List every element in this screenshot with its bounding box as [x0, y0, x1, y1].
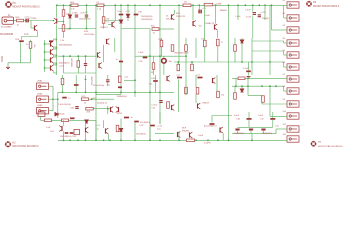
junction [159, 55, 161, 57]
wire bend to JP5 [283, 51, 285, 55]
label C12b [260, 118, 265, 120]
wire y78.3 net [232, 77, 287, 79]
svg-text:24N5: 24N5 [117, 113, 123, 115]
wire Q10 emitter tie [54, 48, 57, 50]
label R21 [93, 98, 98, 100]
wire R27 down [30, 48, 32, 63]
wire into JP10 [270, 115, 287, 117]
wire bend to JP6 [283, 62, 285, 67]
wire x248 r3 [247, 78, 249, 95]
wire X2 lead [49, 98, 58, 100]
value 2N08W [182, 131, 189, 133]
resistor R20h [86, 107, 94, 110]
wire x135 r4 [134, 123, 136, 141]
junction [91, 98, 93, 100]
wire x179 rail [178, 5, 180, 62]
header pin JP11 [287, 126, 299, 132]
value 16 [166, 15, 169, 17]
label M11 [176, 13, 181, 15]
junction bottom bus [69, 139, 71, 141]
wire x252 seg [251, 38, 253, 75]
label C4 [96, 2, 100, 4]
junction top bus [56, 4, 58, 6]
value 1k R25 [17, 24, 20, 26]
wire x70 seg2 [69, 18, 71, 28]
wire x128 stub2 [127, 18, 129, 21]
wire Q13 collector tie [54, 62, 57, 64]
connector X4 [38, 112, 45, 116]
svg-text:BC546B: BC546B [91, 76, 93, 85]
junction y62 [177, 61, 179, 63]
svg-text:240(40).2k: 240(40).2k [97, 102, 108, 104]
wire x217 r3 [216, 75, 218, 91]
label C36 [138, 12, 143, 14]
resistor R34 [238, 77, 245, 80]
transistor Q25 [178, 132, 181, 138]
wire y28.5 [58, 28, 96, 30]
wire x204.4 seg [203, 5, 205, 40]
value C+3 [24, 34, 29, 36]
svg-text:1,000.2k(2G): 1,000.2k(2G) [58, 104, 71, 106]
wire Q11 collector tie [54, 46, 57, 48]
wire y133.6 seg [155, 133, 174, 135]
junction [134, 79, 136, 81]
resistor R39 [116, 125, 119, 132]
junction [44, 51, 46, 53]
wire y20.5 mid [104, 20, 121, 22]
value 1.0uF [243, 68, 249, 70]
label JP10 [283, 111, 287, 113]
wire x248.5 gnd [248, 72, 250, 75]
wire y28.5 seg2 [121, 28, 150, 30]
capacitor C28b [70, 132, 74, 134]
wire Q10 emitter [53, 47, 55, 49]
svg-text:1N4148(D0)R30: 1N4148(D0)R30 [174, 52, 189, 54]
wire x85.5 r4 [85, 123, 87, 127]
capacitor C9b [198, 77, 203, 79]
svg-text:1N4AC1: 1N4AC1 [220, 9, 229, 12]
wire x86.5 seg [86, 5, 88, 14]
svg-text:MOUNT-PAD-ROUND3.6: MOUNT-PAD-ROUND3.6 [313, 5, 340, 8]
wire x63.5 r4 [63, 120, 65, 126]
junction bottom bus [77, 139, 79, 141]
resistor R17 [160, 40, 163, 47]
junction top bus [271, 4, 273, 6]
wire x160 rail [159, 5, 161, 124]
label +C2 [176, 74, 181, 76]
wire x199.3 seg [198, 5, 200, 9]
wire x78.3 r2b [77, 67, 79, 73]
label +C9 [196, 74, 201, 76]
wire X3 lead [49, 110, 54, 112]
value 1N4148(D0)R30 [174, 52, 189, 54]
wire base Q12 [45, 59, 51, 61]
value 1N4(B4D0) [234, 133, 244, 135]
svg-text:1N48(D0)L: 1N48(D0)L [117, 96, 128, 98]
junction bottom bus [159, 139, 161, 141]
resistor R24v [191, 64, 194, 71]
resistor R27 [29, 42, 32, 49]
junction y56.2 [85, 55, 87, 57]
transistor Q15 [111, 107, 114, 113]
wire x108.7 r4 [108, 134, 110, 140]
junction top bus [237, 4, 239, 6]
wire x128 stub [127, 5, 129, 14]
value BC546B vert [70, 59, 72, 68]
label +C13 [157, 125, 163, 127]
svg-text:(D0)4u: (D0)4u [59, 113, 65, 115]
wire Q12 collector [53, 55, 55, 57]
wire drop to C06 [21, 37, 23, 40]
label +C1B [260, 12, 266, 14]
svg-text:1N4AC13: 1N4AC13 [205, 22, 215, 25]
wire x228.5 rail [228, 5, 230, 140]
junction [53, 20, 55, 22]
svg-text:1C28: 1C28 [246, 16, 252, 18]
wire y92.3 [58, 91, 174, 93]
wire into JP3 [272, 29, 288, 31]
wire x193 seg [192, 5, 194, 20]
junction top bus [264, 4, 266, 6]
wire x121 r4 [120, 119, 122, 129]
wire x186 r3b [185, 87, 187, 95]
svg-text:1.0Ok: 1.0Ok [151, 104, 158, 106]
wire rail x57 upper [56, 5, 58, 17]
value 1N4148(D0) [79, 18, 91, 20]
wire Q13 collector [53, 63, 55, 65]
wire x70 seg [69, 5, 71, 14]
resistor R30 [167, 102, 170, 109]
header pin JP1 [287, 2, 299, 8]
svg-text:USB3: USB3 [37, 105, 43, 107]
label X1 [37, 81, 43, 83]
junction bottom bus [63, 139, 65, 141]
junction [44, 59, 46, 61]
capacitor C37 [119, 61, 123, 63]
wire bend to JP4 [283, 41, 285, 43]
capacitor C34 [85, 15, 88, 17]
wire into JP11 [276, 128, 287, 130]
junction [57, 98, 59, 100]
wire x103.6 r4 [103, 120, 105, 128]
value PC3(M) [30, 18, 37, 20]
capacitor C26 [70, 117, 74, 119]
wire x85.5 r4b [85, 133, 87, 140]
label +C8 [124, 76, 129, 78]
value 1u [68, 98, 70, 100]
wire x107.8 a [107, 75, 109, 80]
label C30 [201, 39, 206, 41]
wire X3 riser [52, 99, 54, 111]
junction bottom bus [134, 139, 136, 141]
junction top bus [86, 4, 88, 6]
capacitor C20 [74, 84, 79, 86]
value 1.6uF [117, 11, 123, 13]
svg-text:2.2(PF): 2.2(PF) [204, 143, 211, 145]
wire Q13 emitter tie [54, 72, 57, 74]
junction y56.2 [77, 55, 79, 57]
value (D0)4u [59, 113, 65, 115]
crystal Y1 [74, 130, 80, 135]
value 1N4148(D0) [59, 62, 70, 64]
label H5 [13, 2, 17, 5]
value 2SC18 [166, 19, 173, 21]
wire x270 seg [269, 5, 271, 75]
label D1 [85, 12, 89, 14]
value 1.0k- [46, 127, 51, 129]
value 24N5 [117, 113, 123, 115]
junction bottom bus [217, 139, 219, 141]
wire x96 rail [95, 5, 97, 140]
ground [6, 67, 10, 68]
svg-text:1.6M+: 1.6M+ [72, 12, 79, 14]
value 1M [106, 18, 109, 20]
wire rail x57 lower [56, 24, 58, 75]
value 1.0u [157, 129, 161, 131]
capacitor C22 [62, 97, 66, 99]
junction [107, 108, 109, 110]
label Q12 [55, 55, 58, 57]
resistor R21v [204, 40, 207, 47]
wire x178.5 r3 [178, 80, 180, 113]
wire y108.7 [93, 108, 110, 110]
value 1.6uF [205, 15, 211, 17]
wire rail x283.7 JP1-JP2 [283, 5, 285, 18]
label D5 [184, 2, 188, 4]
label C11 [149, 84, 154, 86]
header X3 [37, 108, 49, 114]
junction y86.2 [235, 85, 237, 87]
lamp LED1 ring [162, 59, 167, 64]
capacitor C33 [75, 15, 78, 17]
junction top bus [159, 4, 161, 6]
value 2SC1000a [84, 34, 95, 36]
diode D8 [55, 113, 58, 116]
junction [185, 55, 187, 57]
label Q11 [55, 47, 58, 49]
label J1 [8, 15, 11, 17]
junction y92.3 [95, 91, 97, 93]
wire x63.5 r2 [63, 56, 65, 73]
resistor R37 [45, 119, 52, 122]
capacitor C36 [134, 14, 139, 16]
capacitor C13b [150, 125, 155, 127]
junction y62 [191, 61, 193, 63]
junction y56.2 [69, 55, 71, 57]
wire Q3 collector [114, 5, 116, 21]
wire y73 [64, 72, 97, 74]
diode D9 [119, 129, 122, 132]
svg-text:USB2: USB2 [37, 94, 43, 96]
wire x196 r3b [195, 94, 197, 103]
value MOUNT-PAD-ROUND3.6 (H2) [13, 145, 40, 148]
wire into JP8 [284, 90, 287, 92]
svg-text:1.6uF: 1.6uF [205, 15, 211, 17]
wire y29 right [159, 28, 174, 30]
wire Q11 emitter tie [54, 56, 57, 58]
header X2 [37, 96, 49, 102]
capacitor C2 [177, 77, 182, 79]
wire y86.2 long net [232, 85, 284, 87]
label R17 [159, 39, 164, 41]
wire R21v down [204, 47, 206, 62]
header pin JP12 [287, 136, 299, 142]
value 1.6uF [235, 16, 241, 18]
svg-text:1.8uF: 1.8uF [258, 115, 264, 117]
capacitor C23 [75, 107, 78, 109]
resistor R38 [62, 119, 69, 122]
svg-text:1M: 1M [106, 18, 109, 20]
label R1a [151, 26, 156, 28]
junction top bus [192, 4, 194, 6]
label R14 [84, 31, 89, 33]
junction top bus [149, 4, 151, 6]
label JP11 [283, 124, 287, 126]
wire x57.8 r3 [57, 92, 59, 118]
wire R25 to C12 [24, 20, 26, 22]
value 1N4AC1 [220, 9, 229, 12]
value 1.06M [216, 4, 222, 6]
svg-text:10k: 10k [33, 44, 35, 47]
svg-text:1.68n: 1.68n [151, 78, 157, 80]
value 1.6uF [245, 9, 251, 11]
wire x96-y94 jog [95, 92, 97, 94]
junction top bus [244, 4, 246, 6]
junction top bus [134, 4, 136, 6]
junction top bus [252, 4, 254, 6]
value 1N4148(D0) [141, 16, 153, 18]
resistor R22 [217, 39, 220, 46]
header pin JP3 [287, 27, 299, 33]
value 10k R06 [66, 13, 70, 15]
svg-text:MOUNT-PAD-ROUND3.6: MOUNT-PAD-ROUND3.6 [13, 145, 40, 148]
diode D6 [240, 89, 243, 92]
resistor R33 [217, 91, 220, 98]
junction y92.3 [134, 91, 136, 93]
junction top bus [178, 4, 180, 6]
wire x251 d [250, 131, 252, 134]
capacitor C12 [26, 19, 28, 23]
junction y62 [241, 61, 243, 63]
value 1u [97, 128, 99, 130]
diode D11 [249, 129, 253, 131]
resistor R26 [234, 45, 237, 52]
wire Q12 collector tie [54, 54, 57, 56]
wire R27 top [30, 40, 32, 42]
junction top bus [198, 4, 200, 6]
resistor R40 [187, 139, 195, 142]
value MOUNT-PAD-ROUND3.6 (H6) [313, 5, 340, 8]
label +C33 [80, 12, 86, 14]
transistor Q3 [112, 22, 115, 28]
svg-text:1.6uF: 1.6uF [117, 11, 123, 13]
wire x186 rail2 [185, 51, 187, 95]
svg-text:USB1: USB1 [37, 81, 43, 83]
header pin JP2 [287, 15, 299, 21]
resistor R15 [204, 3, 213, 6]
svg-text:C1B: C1B [236, 118, 241, 120]
svg-text:MOUNT-PAD-ROUND3.6: MOUNT-PAD-ROUND3.6 [13, 5, 41, 8]
wire x153.5 a [153, 56, 155, 63]
svg-text:1u: 1u [97, 128, 99, 130]
transistor Q23 [106, 128, 109, 134]
transistor Q11 [51, 49, 54, 55]
wire x150 rail [149, 29, 151, 141]
capacitor C19 [246, 70, 251, 72]
junction [247, 77, 249, 79]
svg-text:1.0u: 1.0u [157, 129, 161, 131]
resistor R08 [102, 17, 105, 24]
svg-text:1u: 1u [116, 59, 118, 61]
transistor Q24 [220, 127, 223, 133]
wire top bus [56, 4, 271, 6]
value 1u [131, 117, 133, 119]
value 1.2k [97, 9, 102, 11]
wire x252.8 seg2 [252, 16, 254, 39]
svg-text:1N4(B4D0): 1N4(B4D0) [234, 133, 244, 135]
svg-text:1.6uF: 1.6uF [235, 16, 241, 18]
wire Q12 emitter tie [54, 64, 57, 66]
wire x163.9 b [163, 63, 165, 75]
label +C1 [202, 8, 207, 10]
wire x270 long [269, 86, 271, 116]
junction bottom bus [149, 139, 151, 141]
mount pad H2 [5, 141, 11, 147]
junction bottom bus [95, 139, 97, 141]
label JP2 [283, 13, 286, 15]
junction y62 [251, 61, 253, 63]
wire rail x44.5 [44, 40, 46, 72]
header pin JP6 [287, 64, 299, 70]
wire base Q11 [45, 51, 51, 53]
wire Q3 emitter [114, 27, 116, 30]
wire gnd drop [7, 63, 9, 67]
value 1N4(B) [262, 18, 269, 20]
resistor R23 [177, 64, 180, 71]
label 2N05 [39, 110, 45, 112]
capacitor C06 [19, 40, 24, 42]
value 10k [221, 94, 224, 96]
junction [52, 98, 54, 100]
label JP12 [283, 134, 287, 136]
wire x107.8 b [107, 82, 109, 86]
wire x252 r4 [251, 134, 253, 141]
resistor R13 [82, 98, 89, 101]
label JP8 [283, 86, 286, 88]
wire Q10 collector tie [54, 38, 57, 40]
value 1N4148(D0)+C3.3 [60, 136, 77, 138]
svg-text:1N4148(D0)U: 1N4148(D0)U [59, 44, 73, 46]
value 10k [199, 25, 202, 27]
wire y41 net [252, 40, 284, 42]
transistor Q21 [59, 126, 62, 132]
value 470,84(D0) [140, 122, 150, 124]
junction bottom bus [120, 139, 122, 141]
wire x76.2 a [75, 75, 77, 84]
svg-text:MOUNT-PAD-ROUND3.6: MOUNT-PAD-ROUND3.6 [318, 145, 344, 148]
value (D1)1N4AC13 [204, 124, 217, 127]
junction [149, 55, 151, 57]
svg-text:1u: 1u [68, 98, 70, 100]
wire x103.6 r2 [103, 45, 105, 63]
junction y86.2 [275, 85, 277, 87]
header pin JP4 [287, 40, 299, 46]
value 2N5551 [100, 27, 108, 29]
capacitor C11 [153, 80, 158, 82]
label C-26 [139, 125, 144, 127]
transistor Q17 [167, 76, 170, 82]
wire x196 seg [195, 38, 197, 58]
